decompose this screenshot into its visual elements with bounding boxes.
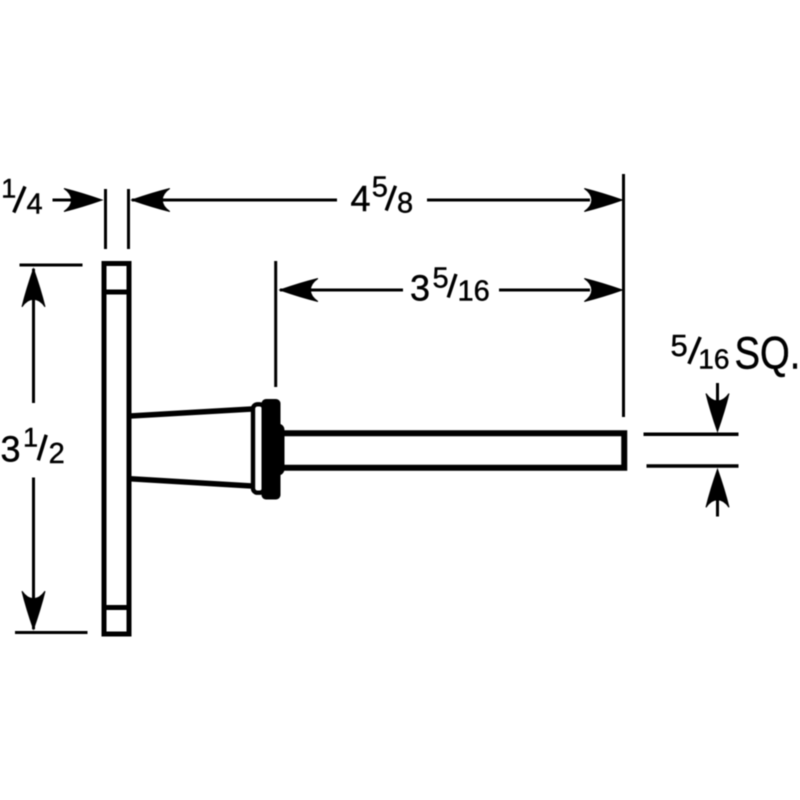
svg-text:5: 5 (671, 328, 688, 363)
dimension 1/4 label (1, 173, 42, 220)
dimension 4 5/8 left arrow (132, 189, 170, 212)
extension line plate left (104, 189, 107, 249)
svg-text:2: 2 (49, 438, 65, 470)
dimension 3 5/16 right line (499, 289, 590, 292)
dimension 3 5/16 label (410, 263, 490, 309)
svg-text:4: 4 (351, 178, 371, 219)
dimension 1/4 right-pointing arrow (64, 189, 102, 212)
dimension 3 5/16 left line (280, 289, 403, 292)
extension line shaft bottom (647, 464, 739, 468)
extension line shaft top (644, 433, 739, 437)
svg-text:3: 3 (1, 429, 21, 470)
svg-text:4: 4 (27, 188, 43, 220)
dimension 3 5/16 left arrow (280, 279, 318, 302)
svg-text:5: 5 (372, 172, 388, 204)
dimension 4 5/8 right line (427, 199, 590, 202)
dimension 5/16 up arrow (706, 469, 729, 507)
ferrule collar solid (262, 399, 285, 500)
svg-text:16: 16 (458, 276, 490, 308)
extension line ferrule face (274, 261, 277, 387)
extension line shaft end (622, 174, 625, 417)
tapered hub (130, 409, 252, 486)
square shaft (273, 433, 624, 468)
extension line plate bottom (15, 631, 88, 634)
svg-text:1: 1 (23, 422, 38, 452)
dimension 4 5/8 left line (132, 199, 337, 202)
dimension 3 1/2 lower line (32, 478, 35, 630)
svg-text:1: 1 (1, 173, 16, 203)
extension line plate right (127, 189, 130, 249)
dimension 5/16 down arrow (706, 394, 729, 432)
dimension 4 5/8 right arrow (584, 189, 622, 212)
svg-text:SQ.: SQ. (735, 328, 800, 379)
dimension 4 5/8 label (351, 172, 414, 220)
dimension 5/16 SQ. label (671, 328, 800, 379)
dimension 3 1/2 upper line (32, 269, 35, 403)
dimension 5/16 up arrow stub (716, 495, 719, 517)
ferrule ring (253, 404, 264, 492)
svg-text:5: 5 (433, 263, 449, 295)
dimension 1/4 leader stub (53, 199, 77, 202)
svg-text:3: 3 (410, 268, 430, 309)
dimension 5/16 down arrow stub (716, 383, 719, 405)
extension line plate top (20, 264, 83, 267)
dimension 3 1/2 up arrow (22, 269, 45, 307)
dimension 3 1/2 down arrow (22, 591, 45, 629)
svg-text:8: 8 (397, 187, 413, 219)
dimension 3 5/16 right arrow (584, 279, 622, 302)
svg-text:16: 16 (698, 343, 729, 374)
dimension 3 1/2 label (1, 422, 65, 470)
flange plate (104, 264, 129, 635)
